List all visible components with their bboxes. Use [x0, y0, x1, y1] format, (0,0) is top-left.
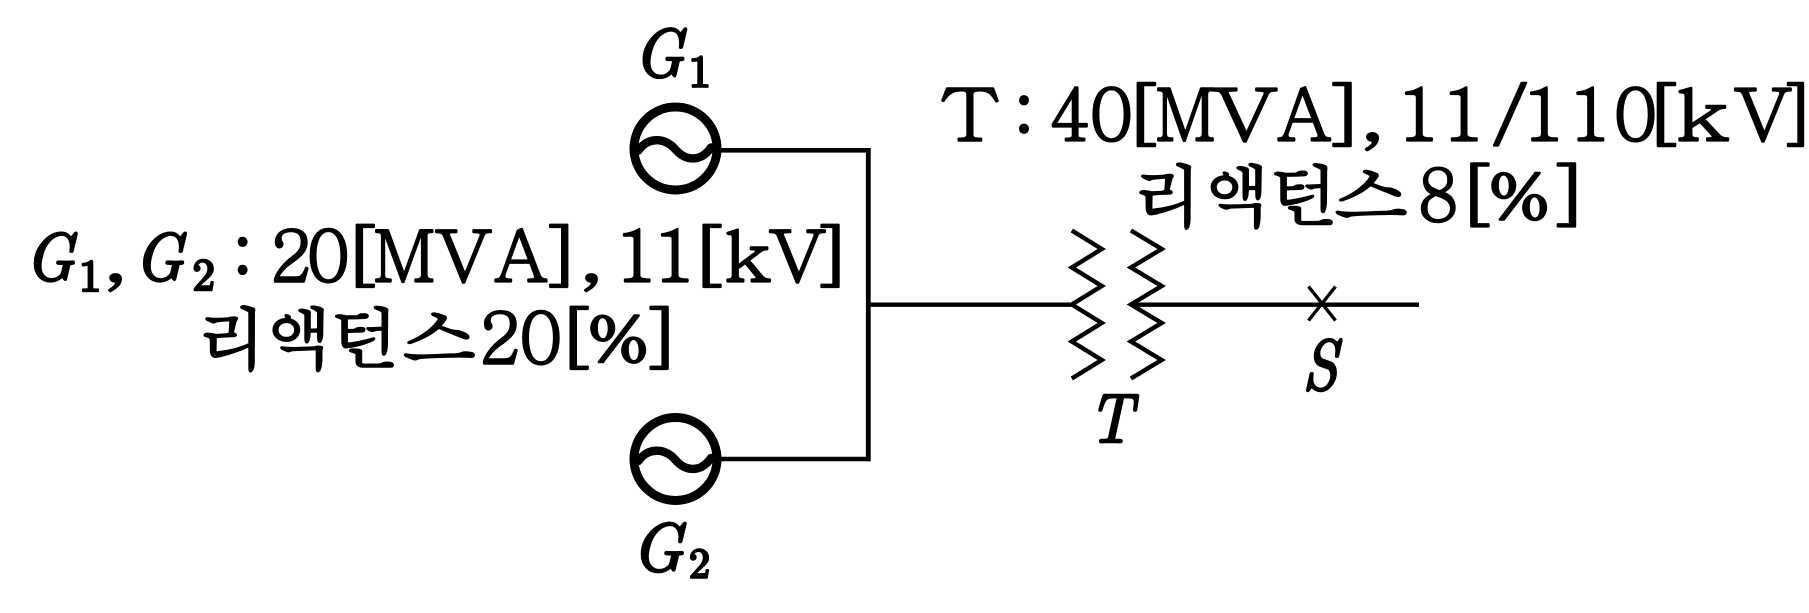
- left annotation line 1: G1, G2 ratings 20[MVA], 11[kV]: [35, 225, 839, 291]
- right annotation line 1: transformer T ratings: [942, 83, 1803, 150]
- wire from bus to transformer T: [868, 303, 1072, 307]
- fault mark X at point S: [1309, 287, 1336, 321]
- vertical bus joining G1 and G2: [866, 148, 871, 461]
- right annotation line 2: reactance 8[%]: [1140, 163, 1575, 228]
- generator G1 (AC source symbol): [634, 107, 717, 190]
- label G2 (generator 2 designator): [642, 523, 708, 578]
- label T (transformer designator): [1099, 395, 1138, 442]
- left annotation line 2: reactance 20[%]: [205, 306, 668, 371]
- label S (fault point designator): [1307, 339, 1341, 391]
- wire from G1 to bus: [720, 148, 871, 153]
- wire from G2 to bus: [720, 457, 871, 462]
- transformer T secondary winding (zigzag coil): [1131, 231, 1162, 379]
- wire from transformer to fault point S: [1131, 303, 1419, 307]
- generator G2 (AC source symbol): [634, 418, 717, 501]
- label G1 (generator 1 designator): [644, 28, 708, 86]
- transformer T primary winding (zigzag coil): [1072, 231, 1102, 379]
